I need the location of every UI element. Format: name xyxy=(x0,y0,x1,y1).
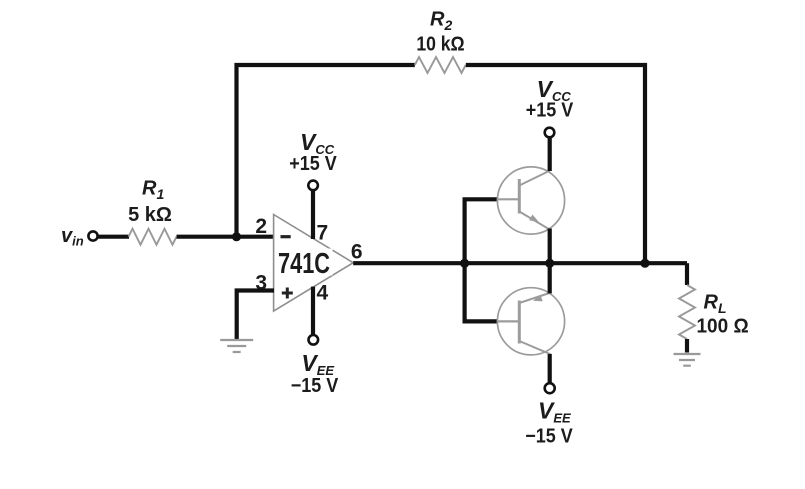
op-amp U1 triangle xyxy=(274,215,354,312)
wire: Q2 collector to VEE terminal xyxy=(548,354,552,383)
wire: op-amp output pin 6 across to load corner xyxy=(353,261,687,265)
label 741C xyxy=(277,249,333,276)
ground: op-amp noninverting input xyxy=(220,340,253,352)
wire: Q1 emitter down to output node xyxy=(548,229,552,264)
terminal: op-amp VEE xyxy=(309,335,319,345)
op-amp plus sign xyxy=(282,288,293,299)
transistor Q2 (PNP) xyxy=(497,288,564,355)
wire: RL to ground xyxy=(685,339,689,353)
op-amp minus sign xyxy=(281,235,291,238)
terminal: Q1 VCC xyxy=(545,128,555,138)
svg-text:10 kΩ: 10 kΩ xyxy=(416,32,464,54)
terminal: vin input xyxy=(88,231,97,240)
wire: pin 3 to ground xyxy=(237,291,274,340)
svg-text:100 Ω: 100 Ω xyxy=(697,315,749,338)
resistor R2 xyxy=(415,57,466,73)
wire: pin 7 to VCC terminal xyxy=(311,191,315,239)
svg-text:5 kΩ: 5 kΩ xyxy=(128,204,172,226)
terminal: Q2 VEE xyxy=(545,383,555,393)
wire: vin terminal to R1 xyxy=(98,235,130,239)
wire: output node down to Q2 emitter xyxy=(548,263,552,293)
wire: pin 4 to VEE terminal xyxy=(311,287,315,335)
wire: VCC terminal to Q1 collector xyxy=(548,138,552,171)
svg-text:−15 V: −15 V xyxy=(291,375,339,397)
svg-text:7: 7 xyxy=(317,221,329,244)
svg-text:−15 V: −15 V xyxy=(525,425,573,447)
wire: R1 to op-amp inverting input through node A xyxy=(177,235,275,239)
junction: output node at base drive tee xyxy=(460,259,469,268)
transistor Q1 (NPN) xyxy=(497,167,564,234)
svg-text:+15 V: +15 V xyxy=(289,153,337,175)
svg-text:4: 4 xyxy=(317,282,329,305)
ground: RL load xyxy=(674,354,701,366)
junction: output node at feedback xyxy=(640,259,649,268)
wire: feedback left vertical from node A to top xyxy=(237,65,415,237)
svg-text:2: 2 xyxy=(255,215,267,238)
junction: output node at emitters xyxy=(545,259,554,268)
wire: top feedback right segment down to output node xyxy=(466,65,645,263)
resistor R1 xyxy=(129,229,177,245)
wire: output corner down to RL xyxy=(685,263,689,285)
wire: base drive vertical with stubs to Q1 and Q2 bases xyxy=(465,199,498,321)
svg-text:741C: 741C xyxy=(278,248,330,280)
svg-text:6: 6 xyxy=(351,241,363,264)
terminal: op-amp VCC xyxy=(308,181,318,191)
svg-text:+15 V: +15 V xyxy=(526,100,574,122)
junction: node A inverting input xyxy=(232,232,241,241)
resistor RL xyxy=(679,285,695,339)
